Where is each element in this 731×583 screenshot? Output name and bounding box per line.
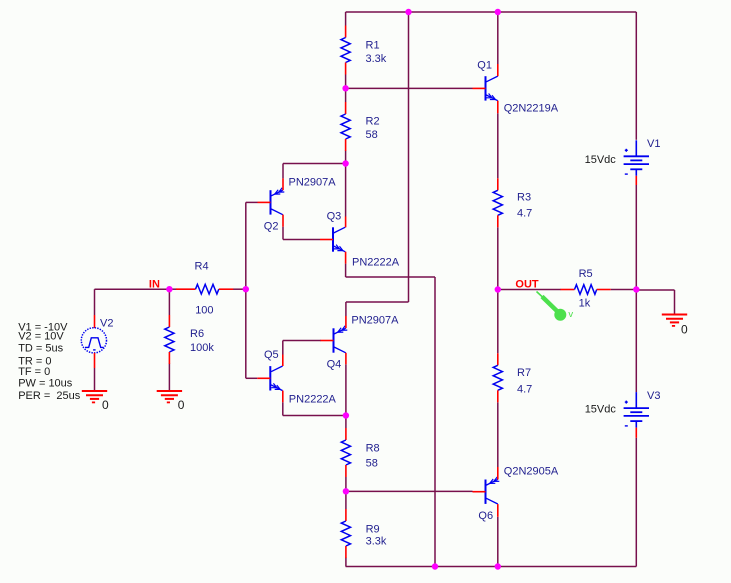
wire R1 bottom to node <box>345 75 347 89</box>
wire Q5 emitter pin <box>282 391 284 403</box>
wire OUT to R5 <box>498 289 561 291</box>
wire V3 to bottom rail <box>635 438 637 567</box>
svg-text:Q4: Q4 <box>327 359 342 371</box>
resistor R3 <box>493 178 502 227</box>
label R5 <box>579 268 593 280</box>
wire Q3 emitter across <box>346 276 435 278</box>
wire V1 to OUT node <box>635 185 637 290</box>
label Q6 model Q2N2905A <box>504 466 559 478</box>
wire Q2 collector to Q3 base <box>283 239 320 241</box>
voltage probe marker <box>537 292 574 321</box>
label R7 <box>517 367 531 379</box>
svg-text:R1: R1 <box>366 40 380 52</box>
wire node to Q6 base <box>346 490 473 492</box>
svg-text:V2 = 10V: V2 = 10V <box>18 330 64 342</box>
label Q5 <box>264 349 279 361</box>
resistor R4 <box>176 284 233 294</box>
label R8 value 58 <box>366 458 378 470</box>
label V1 value 15Vdc <box>585 154 617 166</box>
resistor R8 <box>341 428 350 477</box>
transistor Q1 <box>473 76 498 101</box>
svg-text:V1: V1 <box>647 138 660 150</box>
label R3 <box>517 191 531 203</box>
svg-text:PW = 10us: PW = 10us <box>18 377 73 389</box>
node OUT junction <box>495 286 501 292</box>
svg-text:1k: 1k <box>579 298 591 310</box>
wire OUT node to V3 <box>635 290 637 393</box>
svg-text:R9: R9 <box>366 523 380 535</box>
svg-text:R8: R8 <box>366 443 380 455</box>
wire Q1 collector pin <box>497 64 499 76</box>
source V2 pulse <box>81 315 106 368</box>
svg-text:PN2222A: PN2222A <box>289 393 337 405</box>
svg-text:PN2907A: PN2907A <box>351 314 399 326</box>
label R7 value 4.7 <box>517 384 532 396</box>
label R9 <box>366 523 380 535</box>
svg-text:R2: R2 <box>366 115 380 127</box>
resistor R6 <box>165 315 174 364</box>
svg-text:3.3k: 3.3k <box>366 536 387 548</box>
label V3 <box>647 390 660 402</box>
wire Q6 emitter pin <box>497 467 499 480</box>
wire Q4 collector down to node <box>345 364 347 415</box>
wire Q3 emitter down <box>345 264 347 277</box>
wire Q3 emitter pin <box>345 252 347 264</box>
wire Q4 emitter pin <box>345 316 347 328</box>
svg-text:R4: R4 <box>195 261 209 273</box>
wire input node to Q2 base <box>246 201 258 203</box>
label R4 value 100 <box>195 304 213 316</box>
wire to Q5 base <box>246 377 257 379</box>
wire bias horizontal to Q4 emitter <box>346 301 409 303</box>
source V1 battery <box>624 140 649 176</box>
wire Q5 collector up <box>282 341 284 355</box>
wire down to Q4 emitter <box>345 302 347 316</box>
node IN junction <box>166 286 172 292</box>
resistor R5 <box>561 285 611 295</box>
wire V3 bottom pin <box>635 428 637 438</box>
wire R9 to bottom rail <box>345 558 347 567</box>
wire IN node to R4 <box>169 288 176 290</box>
label Q1 <box>477 60 492 72</box>
wire Q1 collector to top <box>497 12 499 64</box>
wire OUT node to R7 <box>497 290 499 354</box>
wire feedback vertical to bottom rail <box>434 277 436 567</box>
label V2 pulse parameters <box>18 321 81 402</box>
label R8 <box>366 443 380 455</box>
wire node down to Q3 collector <box>345 164 347 217</box>
label Q3 <box>327 210 342 222</box>
node junction bottom rail Q6 <box>495 563 501 569</box>
wire R4 to node <box>233 288 246 290</box>
label Q1 model Q2N2219A <box>504 103 559 115</box>
label R1 <box>366 40 380 52</box>
wire V2 bottom to ground <box>94 368 96 391</box>
wire IN from V2 <box>95 288 170 290</box>
wire node to R8 <box>345 416 347 429</box>
svg-text:R5: R5 <box>579 268 593 280</box>
svg-text:TD = 5us: TD = 5us <box>18 343 63 355</box>
svg-text:4.7: 4.7 <box>517 384 532 396</box>
transistor Q5 <box>257 366 282 391</box>
svg-text:100: 100 <box>195 304 213 316</box>
label R4 <box>195 261 209 273</box>
node junction R2 bottom <box>342 160 348 166</box>
node junction V rail <box>633 286 639 292</box>
wire Q5 collector pin <box>282 355 284 367</box>
wire Q1 base <box>346 87 473 89</box>
wire R7 to Q6 emitter <box>497 402 499 467</box>
svg-text:100k: 100k <box>190 342 214 354</box>
wire Q5 emitter down <box>282 402 284 415</box>
label Q5 model PN2222A <box>289 393 337 405</box>
wire Q1 emitter to R3 <box>497 113 499 178</box>
node junction R8-R9-Q6 <box>343 488 349 494</box>
svg-text:PN2907A: PN2907A <box>289 177 337 189</box>
resistor R9 <box>341 509 350 558</box>
source V3 battery <box>624 392 649 428</box>
wire R5 to rail node <box>611 289 637 291</box>
svg-text:Q3: Q3 <box>327 210 342 222</box>
transistor Q2 <box>258 188 285 215</box>
wire V+ rail right side <box>635 12 637 140</box>
wire Q2 collector pin <box>282 215 284 227</box>
wire R2 bottom to node <box>345 151 347 164</box>
svg-text:IN: IN <box>149 278 160 290</box>
svg-text:TF = 0: TF = 0 <box>18 366 50 378</box>
wire V2 top <box>94 289 96 315</box>
svg-text:Q2N2905A: Q2N2905A <box>504 466 559 478</box>
svg-text:58: 58 <box>366 458 378 470</box>
wire Q1 emitter pin <box>497 101 499 114</box>
wire R3 to OUT node <box>497 227 499 289</box>
svg-text:58: 58 <box>366 129 378 141</box>
svg-text:Q2: Q2 <box>264 220 279 232</box>
svg-text:PN2222A: PN2222A <box>352 257 400 269</box>
transistor Q4 <box>321 326 348 353</box>
label OUT <box>515 279 539 291</box>
wire Q2 emitter up <box>282 164 284 179</box>
svg-text:Q5: Q5 <box>264 349 279 361</box>
label V1 <box>647 138 660 150</box>
label Q2 <box>264 220 279 232</box>
wire Q5 collector to Q4 base <box>283 340 321 342</box>
wire Q2 collector down <box>282 227 284 240</box>
wire Q2 emitter to node <box>283 163 346 165</box>
svg-text:Q6: Q6 <box>478 510 493 522</box>
label IN <box>149 278 160 290</box>
node junction top rail Q1 <box>495 9 501 15</box>
label R2 <box>366 115 380 127</box>
wire node to R2 top <box>345 88 347 102</box>
svg-text:R3: R3 <box>517 191 531 203</box>
wire Q6 collector to bottom rail <box>497 517 499 567</box>
transistor Q3 <box>320 227 345 252</box>
transistor Q6 <box>473 477 500 504</box>
svg-text:15Vdc: 15Vdc <box>585 404 617 416</box>
label R9 value 3.3k <box>366 536 387 548</box>
wire Q3 collector pin <box>345 217 347 228</box>
wire left bias vertical <box>245 202 247 378</box>
svg-text:0: 0 <box>178 398 185 412</box>
label Q4 model PN2907A <box>351 314 399 326</box>
wire R6 to ground <box>168 364 170 391</box>
wire V1 bottom pin <box>635 176 637 185</box>
label V2 <box>100 318 113 330</box>
node junction R4 right <box>243 286 249 292</box>
svg-text:R7: R7 <box>517 367 531 379</box>
svg-text:OUT: OUT <box>515 279 539 291</box>
label Q6 <box>478 510 493 522</box>
label R3 value 4.7 <box>517 207 532 219</box>
wire bottom rail <box>346 566 637 568</box>
svg-text:4.7: 4.7 <box>517 207 532 219</box>
svg-text:V2: V2 <box>100 318 113 330</box>
wire node to R9 <box>345 491 347 509</box>
svg-text:v: v <box>568 309 573 320</box>
wire IN node down to R6 <box>168 289 170 315</box>
resistor R7 <box>493 353 502 402</box>
ground under R6 <box>157 391 185 412</box>
svg-text:0: 0 <box>681 323 688 337</box>
resistor R1 <box>341 26 350 75</box>
node junction bottom rail feedback <box>432 563 438 569</box>
wire top rail <box>346 11 637 13</box>
node junction Q4-Q5-R8 <box>343 412 349 418</box>
label R1 value 3.3k <box>366 53 387 65</box>
ground under V2 <box>82 391 109 412</box>
label R5 value 1k <box>579 298 591 310</box>
wire rail node to ground <box>636 290 674 315</box>
label Q2 model PN2907A <box>289 177 337 189</box>
wire bias vertical from top rail <box>408 12 410 302</box>
node junction top rail bias <box>405 9 411 15</box>
wire R8 to node <box>345 477 347 491</box>
svg-text:3.3k: 3.3k <box>366 53 387 65</box>
ground right of R5 <box>662 315 688 337</box>
label R6 <box>190 328 204 340</box>
label V3 value 15Vdc <box>585 404 617 416</box>
wire Q4 collector pin <box>345 353 347 365</box>
node junction R1-R2 <box>342 85 348 91</box>
svg-text:PER = 25us: PER = 25us <box>18 390 81 402</box>
wire Q5 emitter to node <box>283 415 346 417</box>
svg-text:Q2N2219A: Q2N2219A <box>504 103 559 115</box>
svg-text:Q1: Q1 <box>477 60 492 72</box>
svg-text:V3: V3 <box>647 390 660 402</box>
svg-text:R6: R6 <box>190 328 204 340</box>
label Q3 model PN2222A <box>352 257 400 269</box>
wire Q2 emitter pin <box>282 178 284 190</box>
svg-text:15Vdc: 15Vdc <box>585 154 617 166</box>
wire Q6 collector pin <box>497 504 499 517</box>
label R2 value 58 <box>366 129 378 141</box>
resistor R2 <box>341 102 350 151</box>
label R6 value 100k <box>190 342 214 354</box>
label Q4 <box>327 359 342 371</box>
svg-text:0: 0 <box>102 398 109 412</box>
wire R1 top lead <box>345 12 347 26</box>
